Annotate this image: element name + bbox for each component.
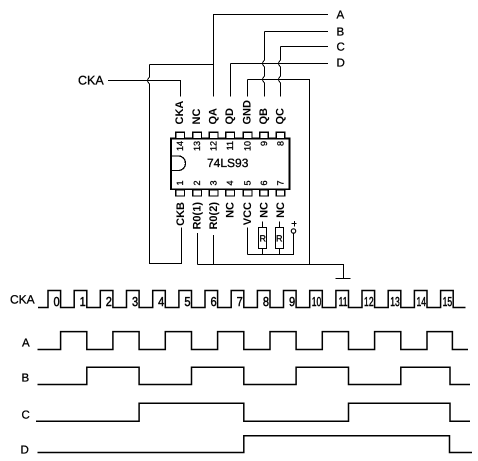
svg-text:6: 6 xyxy=(259,180,269,185)
svg-text:2: 2 xyxy=(192,180,202,185)
svg-text:QB: QB xyxy=(258,108,270,125)
svg-text:9: 9 xyxy=(259,141,269,146)
svg-text:13: 13 xyxy=(192,141,202,151)
svg-text:5: 5 xyxy=(184,294,190,309)
svg-text:14: 14 xyxy=(175,141,185,151)
svg-text:GND: GND xyxy=(242,100,254,125)
svg-text:8: 8 xyxy=(276,141,286,146)
svg-text:14: 14 xyxy=(416,294,426,309)
svg-text:5: 5 xyxy=(243,180,253,185)
svg-text:B: B xyxy=(337,26,345,38)
svg-text:QA: QA xyxy=(208,108,220,125)
svg-text:VCC: VCC xyxy=(242,202,254,225)
svg-text:R: R xyxy=(276,234,283,244)
svg-text:15: 15 xyxy=(443,294,453,309)
svg-text:4: 4 xyxy=(225,180,235,185)
svg-text:2: 2 xyxy=(106,294,112,309)
svg-text:8: 8 xyxy=(263,294,269,309)
svg-text:QC: QC xyxy=(275,108,287,125)
svg-text:4: 4 xyxy=(158,294,164,309)
svg-text:B: B xyxy=(22,372,30,384)
svg-text:C: C xyxy=(337,41,345,53)
svg-text:10: 10 xyxy=(243,141,253,151)
svg-text:NC: NC xyxy=(275,202,287,218)
svg-text:A: A xyxy=(22,337,30,349)
svg-text:6: 6 xyxy=(210,294,216,309)
svg-text:NC: NC xyxy=(191,109,203,125)
svg-text:1: 1 xyxy=(80,294,86,309)
svg-text:1: 1 xyxy=(175,180,185,185)
svg-text:7: 7 xyxy=(276,180,286,185)
svg-text:CKA: CKA xyxy=(10,293,35,307)
svg-text:A: A xyxy=(337,10,345,22)
svg-text:3: 3 xyxy=(209,180,219,185)
svg-text:R: R xyxy=(260,234,267,244)
svg-text:R0(1): R0(1) xyxy=(192,202,204,230)
svg-text:11: 11 xyxy=(225,141,235,150)
svg-text:D: D xyxy=(337,58,345,70)
svg-text:7: 7 xyxy=(237,294,243,309)
svg-text:9: 9 xyxy=(289,294,295,309)
svg-text:D: D xyxy=(21,444,29,456)
svg-text:CKB: CKB xyxy=(175,202,187,226)
svg-text:12: 12 xyxy=(209,141,219,151)
svg-text:CKA: CKA xyxy=(78,73,104,87)
svg-text:NC: NC xyxy=(225,202,237,218)
svg-text:3: 3 xyxy=(132,294,138,309)
svg-text:10: 10 xyxy=(312,294,322,309)
svg-text:11: 11 xyxy=(339,294,348,309)
svg-text:CKA: CKA xyxy=(174,101,186,125)
svg-text:C: C xyxy=(22,410,30,422)
svg-text:74LS93: 74LS93 xyxy=(207,156,249,170)
svg-text:NC: NC xyxy=(259,202,271,218)
svg-text:QD: QD xyxy=(224,108,236,125)
svg-text:13: 13 xyxy=(390,294,400,309)
svg-text:R0(2): R0(2) xyxy=(208,202,220,230)
svg-text:0: 0 xyxy=(53,294,59,309)
svg-text:12: 12 xyxy=(364,294,374,309)
